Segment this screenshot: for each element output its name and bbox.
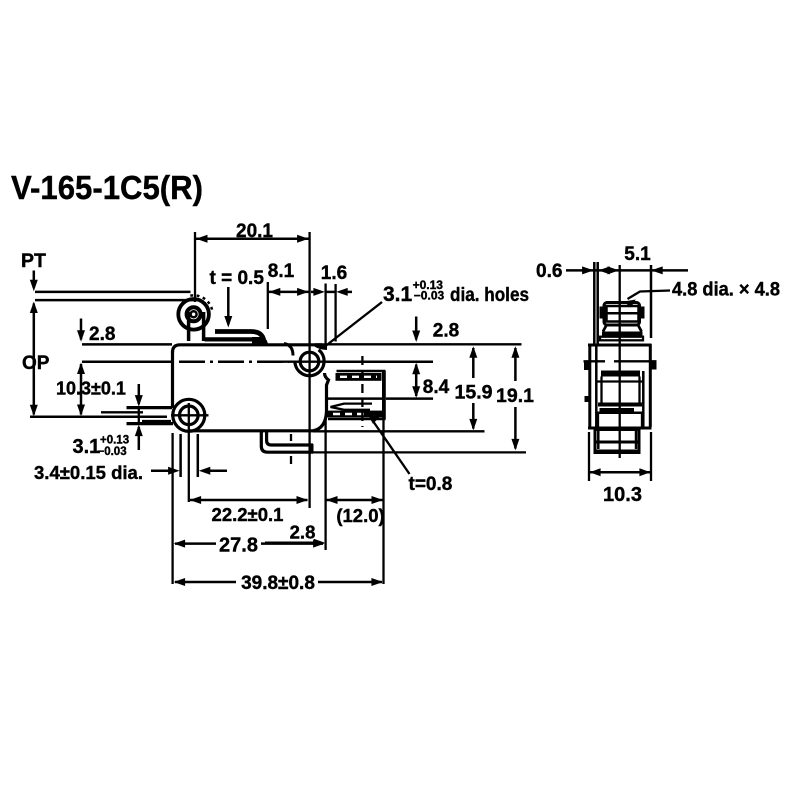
boss around right mounting hole [295,350,324,376]
lever end hook [284,344,293,356]
side line under bar1 [597,380,643,382]
svg-text:20.1: 20.1 [236,221,273,242]
1.6 dimension [324,284,326,345]
roller knob left ear [600,307,605,319]
svg-text:(12.0): (12.0) [336,505,384,526]
svg-text:8.4: 8.4 [423,377,450,398]
svg-text:39.8±0.8: 39.8±0.8 [241,573,315,594]
27.8 dimension [171,433,173,584]
svg-text:5.1: 5.1 [624,244,651,265]
side verticals lower [597,413,599,427]
svg-text:dia. holes: dia. holes [450,284,529,306]
knob bracket base (thick) [602,332,643,337]
10.3 dimension line [80,364,83,415]
roller knob right ear [640,307,645,319]
case right edge [649,344,652,427]
svg-text:OP: OP [22,353,50,374]
3.1 upper arrow [138,384,141,404]
switch body right edge [325,373,329,413]
roller knob mid line [603,312,643,315]
hole center line across side view [584,360,606,362]
lever free-position line (lower) [35,299,197,302]
roller middle circle [187,307,201,321]
svg-text:4.8 dia. × 4.8: 4.8 dia. × 4.8 [672,279,780,301]
right terminal row2 bottom edge [328,418,386,421]
OP dimension line [33,304,36,415]
lever lower strip [205,337,257,341]
svg-text:−0.03: −0.03 [414,289,445,303]
right terminal row2 top edge [328,397,386,400]
side terminal bar 3 [600,408,635,412]
svg-text:10.3±0.1: 10.3±0.1 [56,379,126,399]
side inner vertical right [642,371,645,427]
stub line b [142,420,171,422]
10.3 dimension [588,432,590,481]
lever upper strip [215,332,264,344]
svg-text:V-165-1C5(R): V-165-1C5(R) [11,169,203,206]
lever free-position line (upper) [35,291,191,294]
roller outer circle [178,299,209,330]
right terminals center line (dashed vertical) [361,356,363,427]
left mounting hole [180,406,199,425]
0.6 reference line pair [593,262,596,344]
case cover inner line [595,344,598,427]
switch body left edge [171,351,174,408]
terminal-top line extended right [386,397,433,400]
top-of-case line extended left [82,343,172,346]
15.9 dimension [472,348,475,378]
roller knob inner [607,306,639,322]
2.8 left arrow [80,319,83,340]
svg-text:t=0.8: t=0.8 [409,474,453,495]
switch body top-left corner [173,345,181,353]
8.4 dimension [415,365,418,397]
right terminal row2 body (thick bar) [328,411,384,418]
3.1 hole extension bottom [127,422,174,425]
right terminal row1 slot (white dash) [340,376,377,378]
svg-text:1.6: 1.6 [321,263,347,284]
common terminal right closure [309,444,314,454]
body top-right corner blob [315,343,328,350]
39.8±0.8 dimension [175,581,236,584]
svg-text:t = 0.5: t = 0.5 [210,268,265,289]
svg-text:2.8: 2.8 [89,324,115,345]
knob bracket sides [603,325,642,332]
lever plate in side view [600,337,643,341]
svg-text:22.2±0.1: 22.2±0.1 [212,504,284,525]
case bottom edge (thick) [588,427,652,430]
left mounting hole boss [173,399,205,431]
side line under bar3 [597,411,643,414]
svg-text:2.8: 2.8 [433,321,459,342]
svg-text:0.6: 0.6 [536,261,562,282]
svg-text:15.9: 15.9 [455,382,493,404]
left hole crosshair vertical / 22.2 extension [188,403,190,502]
side bottom terminal inner bar [597,441,638,444]
switch body top edge [180,343,322,346]
(12.0) dimension [324,415,326,550]
3.1 hole extension top [127,406,173,409]
svg-text:19.1: 19.1 [496,385,534,407]
top-of-case line extended right [328,343,522,345]
right mounting hole [300,352,319,371]
right terminal row2 slot (white dash) [333,413,367,416]
3.1 dia holes leader [326,302,383,346]
right terminal right end bar (upper) [382,371,386,399]
22.2±0.1 dimension [190,499,308,502]
terminal-bottom line extended right [313,451,526,453]
svg-text:8.1: 8.1 [268,261,295,282]
common terminal outer outline [261,432,313,453]
5.1 right extension [650,265,653,338]
svg-text:3.1: 3.1 [73,436,101,458]
switch body bottom edge [188,429,313,432]
common terminal center line dashes [290,434,292,441]
left side tab upper [584,362,590,371]
svg-text:3.4±0.15 dia.: 3.4±0.15 dia. [34,462,143,483]
common terminal inner outline [267,432,313,446]
right terminal row2 pointed tab [331,404,373,410]
side terminal bar 2 [598,403,642,407]
side bottom terminal outline [595,430,639,453]
svg-text:−0.03: −0.03 [98,446,127,458]
stub line a [101,411,143,413]
roller bracket left arm [187,312,191,341]
roller rotated position dashed arc [190,295,212,310]
case left edge [588,344,591,427]
8.1 dimension [267,282,269,329]
3.1 lower arrow [138,427,141,450]
svg-text:3.1: 3.1 [383,283,413,306]
case center line (dash-dot) [179,360,289,363]
side terminal bar 1 [601,371,640,377]
right hole crosshair horizontal [283,361,327,363]
side bottom terminal inner verticals [597,430,600,449]
3.4 arrows [151,469,171,472]
roller bracket right arm [202,312,206,341]
switch body bottom-right corner [313,412,327,431]
side verticals mid [600,377,602,404]
left side tab lower [585,396,590,402]
right terminal right end bar (lower) [382,399,386,420]
svg-text:10.3: 10.3 [603,484,642,506]
roller knob outer [604,303,640,326]
svg-text:27.8: 27.8 [219,535,258,557]
hole-center line extended right [327,360,434,363]
right terminal row1 top edge [337,370,386,373]
svg-text:+0.13: +0.13 [100,435,129,447]
OP reference line (bottom) [30,416,167,419]
side view vertical center line [619,265,621,458]
centerline extended left [82,361,173,364]
right terminal row1 body (thick bar) [336,373,382,381]
lever bend blob [252,337,268,346]
svg-text:PT: PT [21,250,46,272]
0.6 / 5.1 dimension line [566,269,688,272]
case-bottom line extended right [313,430,485,432]
roller pin [191,311,197,317]
side bottom terminal bottom bar [595,450,639,453]
3.4 extension lines [179,434,182,477]
case top edge (thick) [588,344,652,347]
20.1 dimension [194,232,196,302]
19.1 dimension [514,348,517,381]
left hole crosshair horizontal [171,414,209,416]
PT arrow [33,271,36,289]
svg-text:2.8: 2.8 [290,522,316,543]
3.1 dim line middle segment [138,408,140,424]
right side tab [651,361,657,370]
